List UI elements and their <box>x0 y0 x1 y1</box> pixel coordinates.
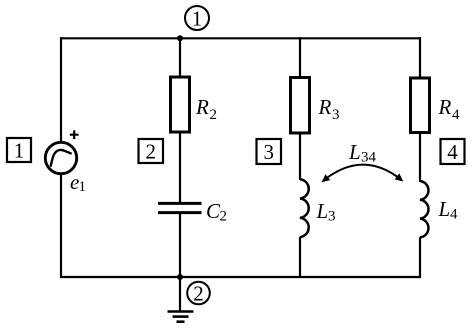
wire branch2 lower <box>179 213 181 278</box>
wire branch4 middle <box>419 132 421 182</box>
svg-text:R: R <box>318 95 332 119</box>
wire top bus <box>60 37 421 39</box>
svg-text:2: 2 <box>220 209 228 225</box>
svg-text:4: 4 <box>447 140 458 164</box>
wire left branch lower <box>60 174 62 279</box>
wire branch3 lower <box>299 237 301 278</box>
box 3 <box>257 139 282 164</box>
wire branch2 middle <box>179 132 181 203</box>
svg-text:1: 1 <box>192 7 203 31</box>
mutual inductance arrow L34 <box>324 165 402 181</box>
svg-text:R: R <box>195 95 209 119</box>
resistor R2 <box>171 77 190 132</box>
node 1 <box>185 6 209 30</box>
wire branch4 upper <box>419 37 421 79</box>
svg-text:34: 34 <box>361 150 377 166</box>
wire branch3 middle <box>299 133 301 181</box>
svg-text:L: L <box>348 140 361 164</box>
resistor R3 <box>291 78 310 134</box>
resistor R4 <box>411 78 430 133</box>
svg-text:L: L <box>316 199 329 223</box>
source e1 <box>45 142 76 173</box>
wire branch4 lower <box>419 237 421 278</box>
svg-text:3: 3 <box>328 209 336 225</box>
ground <box>179 276 181 312</box>
wire bottom bus <box>60 276 421 278</box>
svg-text:3: 3 <box>332 107 340 123</box>
svg-text:2: 2 <box>193 282 204 306</box>
inductor L3 <box>300 179 309 237</box>
svg-text:4: 4 <box>452 107 460 123</box>
node 2 <box>187 282 210 305</box>
box 4 <box>441 139 465 164</box>
svg-text:2: 2 <box>210 107 218 123</box>
svg-text:L: L <box>438 197 451 221</box>
wire branch3 upper <box>299 37 301 78</box>
svg-text:1: 1 <box>14 139 25 163</box>
svg-text:3: 3 <box>263 140 274 164</box>
plus sign <box>70 134 79 136</box>
wire left branch upper <box>60 37 62 142</box>
junction dot bottom <box>177 274 183 280</box>
inductor L4 <box>420 181 428 237</box>
svg-text:R: R <box>438 95 452 119</box>
capacitor C2 <box>158 202 202 205</box>
wire branch2 upper <box>179 37 181 78</box>
junction dot top <box>177 35 183 41</box>
svg-text:4: 4 <box>450 207 458 223</box>
svg-text:1: 1 <box>79 179 87 195</box>
box 2 <box>139 139 164 163</box>
box 1 <box>7 138 31 162</box>
svg-text:2: 2 <box>145 140 156 164</box>
